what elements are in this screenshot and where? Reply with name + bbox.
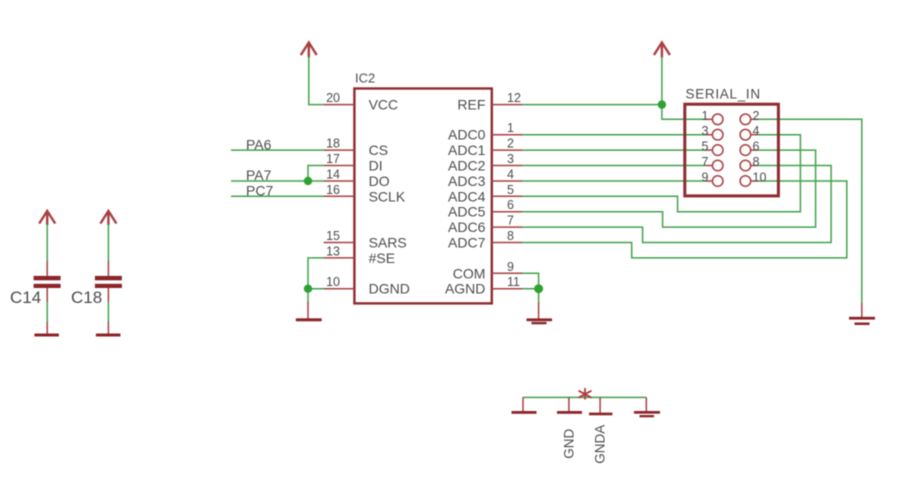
svg-text:10: 10 — [326, 275, 340, 289]
capacitor C18 — [95, 261, 122, 302]
wire PA6 net — [231, 149, 324, 151]
wire C14 bottom — [46, 302, 48, 323]
wire SERIAL_IN 2 to analog ground — [758, 119, 862, 303]
pin 15 SARS stub (unconnected) — [324, 242, 355, 244]
pin 8 ADC7 stub — [492, 242, 523, 244]
pin 14 DO stub — [324, 180, 355, 182]
connector pin 8 — [740, 155, 759, 171]
wire COM to AGND — [523, 273, 539, 288]
connector SERIAL_IN box — [685, 104, 779, 196]
connector pin 1 — [702, 109, 723, 125]
svg-text:1: 1 — [702, 109, 709, 123]
svg-text:2: 2 — [753, 109, 760, 123]
svg-text:8: 8 — [753, 155, 760, 169]
svg-text:9: 9 — [507, 260, 514, 274]
svg-text:4: 4 — [507, 168, 514, 182]
svg-text:18: 18 — [326, 137, 340, 151]
svg-text:DI: DI — [369, 158, 383, 174]
svg-text:5: 5 — [702, 140, 709, 154]
svg-text:ADC2: ADC2 — [448, 158, 486, 174]
svg-text:#SE: #SE — [369, 250, 395, 266]
junction REF/VCC — [658, 100, 666, 108]
pin 1 ADC0 stub — [492, 134, 523, 136]
wire REF net — [523, 105, 706, 120]
wire #SE to DGND — [308, 258, 324, 289]
connector pin 7 — [702, 155, 723, 171]
svg-text:PA6: PA6 — [246, 136, 272, 152]
svg-text:ADC6: ADC6 — [448, 219, 486, 235]
svg-text:ADC3: ADC3 — [448, 173, 486, 189]
pin 10 DGND stub — [324, 288, 355, 290]
connector pin 6 — [740, 140, 759, 156]
svg-text:14: 14 — [326, 168, 340, 182]
wire ADC7 to SERIAL_IN 10 — [523, 181, 847, 258]
pin 12 REF stub — [492, 104, 523, 106]
ground AGND right — [849, 303, 875, 325]
ground below DGND — [296, 302, 322, 321]
svg-text:PA7: PA7 — [246, 167, 272, 183]
wire C18 top — [107, 224, 109, 262]
wire PA7 net — [231, 180, 324, 182]
svg-text:PC7: PC7 — [246, 183, 273, 199]
pin 3 ADC2 stub — [492, 165, 523, 167]
svg-text:15: 15 — [326, 229, 340, 243]
ground AGND below IC — [527, 303, 553, 325]
ground drop 1 (GND) — [512, 397, 537, 413]
connector pin 4 — [740, 124, 759, 140]
svg-text:IC2: IC2 — [355, 71, 375, 86]
pin 11 AGND stub — [492, 288, 523, 290]
pin 4 ADC3 stub — [492, 180, 523, 182]
junction DGND — [304, 285, 312, 293]
svg-text:C18: C18 — [71, 288, 102, 307]
svg-text:GND: GND — [562, 428, 577, 458]
wire ADC0 to SERIAL_IN 3 — [523, 134, 706, 136]
wire ADC4 to SERIAL_IN 4 — [523, 135, 801, 212]
svg-text:10: 10 — [753, 171, 767, 185]
wire ADC3 to SERIAL_IN 9 — [523, 180, 706, 182]
connector pin 2 — [740, 109, 759, 125]
svg-text:11: 11 — [507, 275, 520, 289]
svg-text:9: 9 — [702, 171, 709, 185]
svg-text:COM: COM — [453, 265, 486, 281]
svg-text:6: 6 — [753, 140, 760, 154]
wire VCC drop to REF — [661, 57, 663, 105]
connector pin 9 — [702, 171, 723, 187]
svg-text:5: 5 — [507, 183, 514, 197]
svg-text:3: 3 — [702, 124, 709, 138]
IC2 box — [354, 89, 491, 304]
svg-text:17: 17 — [326, 152, 340, 166]
pin 9 COM stub — [492, 272, 523, 274]
wire ADC6 to SERIAL_IN 8 — [523, 166, 832, 243]
svg-text:16: 16 — [326, 183, 340, 197]
svg-text:SARS: SARS — [369, 235, 407, 251]
wire C14 top — [46, 224, 48, 262]
pin 17 DI stub — [324, 165, 355, 167]
capacitor C14 supply arrow (VCC symbol) — [39, 211, 55, 225]
wire ADC1 to SERIAL_IN 5 — [523, 149, 706, 151]
ground drop 3 (GNDA) — [589, 397, 612, 415]
pin 20 VCC stub — [324, 104, 355, 106]
connector pin 10 — [740, 171, 766, 187]
svg-text:3: 3 — [507, 152, 514, 166]
pin 5 ADC4 stub — [492, 195, 523, 197]
wire DGND — [308, 289, 324, 303]
svg-text:6: 6 — [507, 198, 514, 212]
pin 2 ADC1 stub — [492, 149, 523, 151]
svg-text:13: 13 — [326, 244, 340, 258]
svg-text:ADC1: ADC1 — [448, 142, 486, 158]
svg-text:12: 12 — [507, 91, 521, 105]
pin 16 SCLK stub — [324, 195, 355, 197]
wire PC7 net — [231, 195, 324, 197]
svg-text:SERIAL_IN: SERIAL_IN — [686, 87, 761, 102]
junction PA7/DI/DO — [304, 177, 312, 185]
pin 6 ADC5 stub — [492, 211, 523, 213]
wire VCC to pin 20 — [309, 57, 324, 105]
svg-text:REF: REF — [457, 97, 485, 113]
svg-text:1: 1 — [507, 121, 514, 135]
wire ADC5 to SERIAL_IN 6 — [523, 150, 816, 227]
ground below C18 — [96, 322, 121, 337]
svg-text:ADC5: ADC5 — [448, 204, 486, 220]
connector pin 3 — [702, 124, 723, 140]
svg-text:4: 4 — [753, 124, 760, 138]
svg-text:VCC: VCC — [369, 97, 399, 113]
wire ADC2 to SERIAL_IN 7 — [523, 165, 706, 167]
capacitor C18 supply arrow (VCC symbol) — [100, 211, 116, 225]
VCC arrow above REF junction — [654, 43, 670, 58]
svg-text:CS: CS — [369, 142, 388, 158]
wire AGND — [523, 289, 539, 304]
pin 13 #SE stub — [324, 257, 355, 259]
capacitor C14 — [34, 261, 61, 302]
svg-text:8: 8 — [507, 229, 514, 243]
svg-text:2: 2 — [507, 137, 514, 151]
wire GND/GNDA tie bus — [523, 396, 646, 398]
ground drop 4 (GNDA) — [634, 397, 660, 417]
connector pin 5 — [702, 140, 723, 156]
wire C18 bottom — [107, 302, 109, 323]
ground drop 2 (GND) — [557, 397, 582, 413]
pin 7 ADC6 stub — [492, 226, 523, 228]
net tie star GND/GNDA — [579, 388, 592, 400]
svg-text:DO: DO — [369, 173, 390, 189]
svg-text:ADC0: ADC0 — [448, 127, 486, 143]
ground below C14 — [34, 322, 59, 337]
svg-text:C14: C14 — [10, 288, 41, 307]
svg-text:7: 7 — [702, 155, 709, 169]
svg-text:ADC4: ADC4 — [448, 188, 486, 204]
svg-text:DGND: DGND — [369, 281, 410, 297]
VCC arrow above IC pin 20 — [301, 43, 317, 58]
pin 18 CS stub — [324, 149, 355, 151]
junction COM/AGND — [534, 284, 543, 293]
svg-text:GNDA: GNDA — [593, 425, 608, 464]
wire DI jog to PA7 — [308, 166, 324, 182]
svg-text:20: 20 — [326, 91, 340, 105]
svg-text:7: 7 — [507, 214, 514, 228]
svg-text:SCLK: SCLK — [369, 188, 406, 204]
svg-text:ADC7: ADC7 — [448, 235, 486, 251]
svg-text:AGND: AGND — [445, 281, 485, 297]
